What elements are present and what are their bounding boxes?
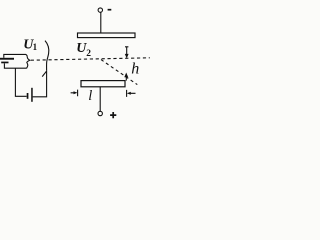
h dimension upper arrow (down) — [125, 47, 129, 59]
wire from minus terminal to top plate — [100, 13, 102, 34]
svg-text:l: l — [88, 88, 92, 104]
svg-text:1: 1 — [33, 42, 38, 52]
minus sign — [108, 9, 112, 11]
battery B1 positive plate (long thin) — [31, 88, 33, 102]
cathode filament bar (long, lead to left edge) — [0, 58, 14, 60]
cathode filament bar (short) — [1, 62, 8, 64]
plus terminal circle — [98, 111, 102, 115]
svg-text:h: h — [131, 61, 139, 78]
l dimension right tick and arrow — [127, 90, 136, 97]
wire from bottom plate to plus terminal — [99, 87, 101, 112]
top deflecting plate P1 — [78, 33, 136, 38]
l dimension left tick and arrow — [71, 90, 78, 97]
deflected trajectory dashed line — [101, 60, 137, 85]
h dimension lower arrow (up) — [124, 73, 128, 81]
gun box right edge squiggle (beam aperture) — [27, 57, 30, 69]
beam axis dashed line — [31, 58, 150, 60]
svg-text:2: 2 — [86, 49, 91, 59]
wire from gun box down to battery — [15, 68, 26, 96]
bottom deflecting plate P2 — [81, 81, 125, 87]
electron gun box (vacuum tube envelope) — [4, 54, 28, 57]
plus sign — [110, 112, 116, 118]
wire from battery to anode arc — [33, 71, 47, 97]
arrow barb on anode wire — [42, 71, 46, 76]
anode arc electrode — [45, 41, 49, 71]
battery B1 negative plate (short thick) — [27, 93, 29, 99]
minus terminal circle — [98, 8, 102, 12]
